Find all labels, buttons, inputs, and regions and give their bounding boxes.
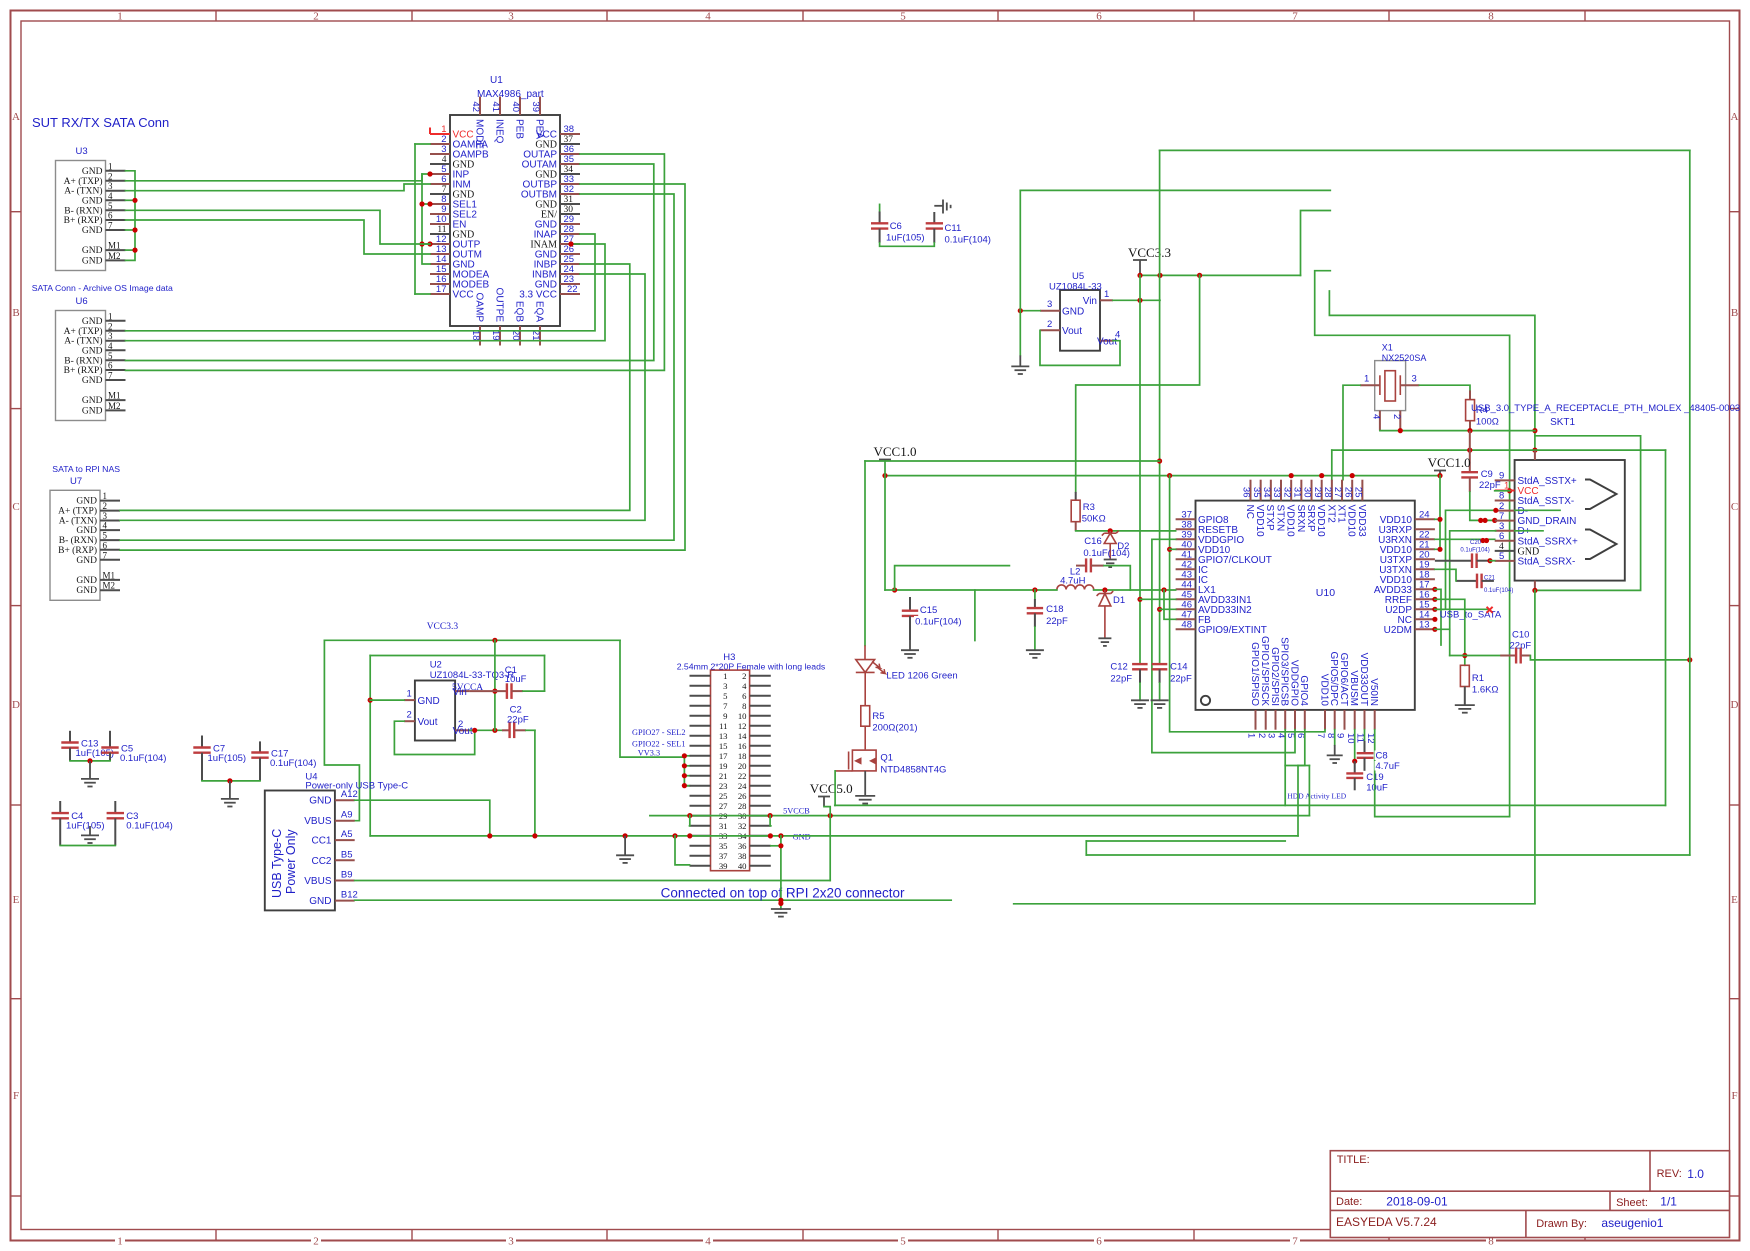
svg-text:7: 7: [108, 221, 113, 231]
svg-text:32: 32: [564, 184, 575, 195]
svg-text:1: 1: [108, 311, 113, 321]
wire y855 bottom horizontal: [1086, 854, 1690, 856]
svg-text:GPIO2/SPISI: GPIO2/SPISI: [1269, 647, 1280, 706]
wire C7/C17 ground link: [202, 780, 260, 782]
svg-text:4: 4: [1115, 330, 1120, 341]
wire GND rail y836: [370, 835, 1298, 837]
wire U4 B9 VBUS to VCC5.0 branch: [355, 880, 831, 882]
svg-text:24: 24: [738, 781, 747, 791]
U10 pin 7 VDD10: [1315, 674, 1329, 739]
SKT1 pin 7 GND_DRAIN: [1495, 511, 1577, 527]
svg-text:VDD33: VDD33: [1356, 505, 1367, 538]
wire U5 Vin to VCC3.3 net: [1113, 299, 1160, 301]
svg-text:C11: C11: [945, 223, 962, 234]
svg-text:21: 21: [719, 771, 728, 781]
svg-text:35: 35: [719, 841, 728, 851]
svg-text:14: 14: [738, 731, 747, 741]
U10 pin 15 U2DP: [1385, 599, 1435, 616]
svg-text:27: 27: [719, 801, 728, 811]
svg-text:25: 25: [719, 791, 728, 801]
svg-text:EQA: EQA: [533, 301, 544, 322]
connector H3 2x20 header: [711, 670, 750, 871]
svg-text:GND: GND: [309, 896, 331, 907]
H3 pins 23/24: [690, 781, 771, 791]
wire Vout up to VCC3.3: [494, 640, 496, 730]
U10 pin 6 GPIO4: [1295, 675, 1309, 738]
svg-text:A9: A9: [341, 810, 353, 821]
U1 pin 9 SEL2: [430, 204, 477, 221]
U10 pin 29 VDD10: [1312, 480, 1326, 537]
U1 pin 4 GND: [430, 155, 474, 171]
wire 5VCCB up to pin6 area: [1308, 766, 1310, 816]
svg-text:B+ (RXP): B+ (RXP): [64, 365, 103, 376]
U2 pin 2 Vout left: [404, 710, 438, 729]
svg-text:0.1uF(104): 0.1uF(104): [270, 758, 316, 769]
svg-text:40: 40: [738, 861, 747, 871]
svg-text:C12: C12: [1110, 662, 1127, 673]
wire VCC1.0 to pin24/21: [1435, 476, 1440, 550]
IC U5 UZ1084L-33: [1060, 290, 1100, 351]
U1 pin 36 OUTAP: [523, 144, 580, 161]
U1 pin 22 3.3 VCC: [519, 284, 580, 301]
U10 pin 44 LX1: [1176, 579, 1217, 596]
wire XT2 net vertical x1665: [1665, 450, 1667, 805]
svg-text:1: 1: [723, 671, 727, 681]
svg-text:9: 9: [723, 711, 727, 721]
svg-text:2: 2: [313, 1236, 319, 1248]
resistor R3 50K: [1071, 492, 1106, 531]
svg-text:VCC3.3: VCC3.3: [1128, 245, 1171, 260]
svg-text:D1: D1: [1113, 595, 1125, 606]
capacitor C11: [926, 212, 991, 246]
svg-text:GND: GND: [82, 196, 103, 206]
U4 pin B9 VBUS: [304, 870, 354, 888]
wire pin10 VBUSM to C19: [1354, 730, 1356, 762]
wire H3 29-31 tie: [689, 816, 691, 826]
wire VDDGPIO pin39 to pin5: [1152, 539, 1295, 752]
U4 pin B12 GND: [309, 890, 358, 908]
svg-text:VBUS: VBUS: [304, 876, 332, 887]
ground below H3 right: [771, 909, 791, 917]
svg-text:3: 3: [508, 11, 514, 23]
wire VCC3.3 left leg down to A9: [324, 640, 359, 820]
ground below C7/C17: [221, 799, 239, 807]
svg-text:13: 13: [1419, 619, 1430, 630]
wire U3RXN to StdA_SSRX+: [1435, 538, 1495, 540]
wire pin8 to ground: [1334, 730, 1336, 745]
svg-text:6: 6: [108, 211, 113, 221]
svg-text:22pF: 22pF: [1110, 674, 1132, 685]
U1 pin 24 INBM: [532, 264, 580, 281]
wire VCC1.0 rail1: [865, 460, 1160, 462]
wire XT2 vertical: [1331, 450, 1333, 480]
svg-text:2.54mm 2*20P Female with long: 2.54mm 2*20P Female with long leads: [677, 662, 826, 672]
svg-text:2: 2: [458, 719, 463, 730]
svg-text:MAX4986_part: MAX4986_part: [477, 89, 544, 100]
svg-text:4: 4: [103, 521, 108, 531]
U1 pin 15 MODEA: [430, 264, 490, 281]
svg-text:3: 3: [1412, 374, 1417, 385]
U10 pin 8 GPIO5/DPC: [1325, 652, 1339, 739]
wire C9 bottom to GND_DRAIN: [1470, 492, 1495, 520]
svg-text:STXP: STXP: [1264, 505, 1275, 531]
svg-text:M1: M1: [103, 570, 116, 580]
svg-text:40: 40: [510, 101, 521, 112]
wire AVDD33 stub: [1435, 589, 1441, 645]
svg-text:U6: U6: [76, 296, 88, 307]
wire H3 30-32 tie: [769, 816, 772, 826]
svg-text:1: 1: [1246, 733, 1257, 738]
capacitor C8 4.7uF: [1357, 730, 1401, 772]
svg-text:100Ω: 100Ω: [1476, 417, 1499, 428]
svg-text:1uF(105): 1uF(105): [66, 821, 105, 832]
svg-text:10: 10: [738, 711, 747, 721]
wire U1 INAP to U6.2: [126, 234, 596, 331]
wire U1 pin2-pin17 vertical: [414, 144, 416, 294]
wire pin4 to HDD LED line: [1284, 730, 1286, 806]
svg-text:B12: B12: [341, 890, 358, 901]
U1 pin 34 GND: [535, 165, 580, 181]
U10 pin 31 SRXN: [1292, 480, 1306, 533]
svg-text:39: 39: [719, 861, 728, 871]
svg-text:2: 2: [742, 671, 746, 681]
ground below C13/C5: [81, 779, 99, 787]
svg-text:9: 9: [1335, 733, 1346, 738]
U10 pin 4 SPIO3/SPICSB: [1275, 637, 1289, 738]
U10 pin 2 GPIO1/SPISCK: [1256, 636, 1270, 738]
svg-text:4: 4: [108, 191, 113, 201]
U10 pin 16 RREF: [1385, 589, 1435, 606]
svg-text:C14: C14: [1170, 662, 1187, 673]
wire U1 INAM to U6.3: [126, 244, 606, 341]
svg-text:U1: U1: [490, 75, 503, 86]
wire U4 B12 GND long: [355, 899, 952, 901]
U5 pin 3 GND: [1040, 299, 1084, 318]
U10 pin 17 AVDD33: [1374, 579, 1435, 596]
capacitor C3: [107, 801, 173, 846]
svg-text:A- (TXN): A- (TXN): [64, 336, 102, 347]
ground below C15: [901, 650, 919, 658]
ground below C18: [1026, 650, 1044, 658]
U10 pin 48 GPIO9/EXTINT: [1176, 619, 1267, 636]
svg-text:32: 32: [738, 821, 747, 831]
svg-text:Vout: Vout: [1062, 326, 1082, 337]
svg-text:1uF(105): 1uF(105): [886, 233, 925, 244]
svg-text:GND: GND: [793, 833, 811, 842]
capacitor C1 10uF: [470, 665, 545, 699]
svg-text:1: 1: [117, 11, 123, 23]
capacitor C12 22pF: [1110, 662, 1147, 701]
svg-text:2: 2: [1391, 414, 1402, 419]
U1 pin 35 OUTAM: [522, 154, 580, 171]
U10 pin 9 GPIO6/ACT: [1335, 653, 1349, 739]
wire open stub y210: [1301, 211, 1331, 276]
svg-text:6: 6: [1499, 531, 1504, 542]
svg-text:35: 35: [1251, 487, 1262, 498]
svg-text:35: 35: [564, 154, 575, 165]
svg-text:NTD4858NT4G: NTD4858NT4G: [880, 765, 946, 776]
U10 pin 42 IC: [1176, 559, 1208, 576]
ground below pin8: [1327, 755, 1343, 763]
svg-text:3: 3: [441, 144, 446, 155]
wire C6 bottom to C11 bottom: [880, 243, 935, 247]
svg-text:18: 18: [738, 751, 747, 761]
wire HDD LED gate line y805: [835, 804, 1666, 806]
svg-text:Vin: Vin: [1083, 296, 1097, 307]
svg-text:22pF: 22pF: [1046, 616, 1068, 627]
U10 pin 27 XT1: [1332, 480, 1346, 524]
svg-text:22pF: 22pF: [1479, 480, 1501, 491]
wire U4 A12 GND: [355, 800, 490, 836]
svg-text:F: F: [13, 1090, 19, 1102]
svg-text:38: 38: [738, 851, 747, 861]
U1 pin 32 OUTBM: [521, 184, 580, 201]
svg-text:17: 17: [436, 284, 447, 295]
svg-text:SATA Conn - Archive OS Image d: SATA Conn - Archive OS Image data: [32, 283, 173, 293]
diode D1: [1097, 590, 1114, 638]
U10 pin 24 VDD10: [1380, 509, 1435, 526]
H3 pins 15/16: [690, 741, 771, 751]
svg-text:M2: M2: [103, 581, 116, 591]
svg-text:2: 2: [313, 11, 319, 23]
ground stub below rail: [624, 836, 626, 855]
svg-text:C6: C6: [890, 221, 902, 232]
svg-text:GPIO4: GPIO4: [1298, 675, 1309, 706]
wire U1 OUTBM to U7.5: [120, 194, 674, 540]
wire top horizontal y150: [1160, 149, 1690, 151]
svg-text:VCC: VCC: [453, 290, 474, 301]
svg-text:A- (TXN): A- (TXN): [64, 186, 102, 197]
svg-text:U3: U3: [76, 146, 88, 157]
svg-text:Sheet:: Sheet:: [1616, 1197, 1648, 1209]
U10 pin 36 NC: [1241, 480, 1255, 519]
svg-text:C15: C15: [920, 605, 937, 616]
wire x885 corner to LX1 line: [885, 589, 895, 591]
resistor R1 1.6K: [1460, 665, 1498, 705]
H3 pins 29/30: [690, 811, 771, 821]
svg-text:4: 4: [705, 11, 711, 23]
svg-text:GND: GND: [1062, 307, 1084, 318]
capacitor C5: [101, 731, 166, 764]
U1 pin 10 EN: [430, 214, 466, 231]
svg-text:GPIO1/SPISO: GPIO1/SPISO: [1249, 642, 1260, 706]
U1 pin 29 GND: [535, 214, 580, 231]
svg-text:10uF: 10uF: [1366, 783, 1388, 794]
capacitor C21 0.1uF: [1456, 574, 1513, 594]
wire X1 pin3 to R4 top: [1419, 385, 1470, 390]
svg-text:B5: B5: [341, 849, 353, 860]
U2 pin 1 GND: [404, 689, 440, 708]
U1 pin 6 INM: [430, 174, 471, 191]
wire D- stub into box: [1515, 509, 1560, 511]
svg-text:VDD10: VDD10: [1318, 674, 1329, 707]
U1 pin 3 OAMPB: [430, 144, 489, 161]
resistor R5 200ohm: [861, 690, 918, 749]
svg-text:0.1uF(104): 0.1uF(104): [126, 821, 172, 832]
U10 pin 18 VDD10: [1380, 569, 1435, 586]
svg-text:USB Type-C: USB Type-C: [270, 829, 284, 898]
U1 pin1 red bend: [429, 128, 431, 135]
wire D+ to U2DM: [1450, 531, 1496, 656]
svg-text:GPIO9/EXTINT: GPIO9/EXTINT: [1198, 625, 1267, 636]
wire open stub y190: [1020, 189, 1330, 191]
U1 pin 39 PEA: [530, 97, 544, 140]
U10 pin 32 VDD10: [1281, 480, 1295, 537]
svg-text:6: 6: [1096, 11, 1102, 23]
wire C10 right to ground net: [1530, 656, 1689, 660]
svg-text:7: 7: [103, 550, 108, 560]
svg-text:VBUS: VBUS: [304, 816, 332, 827]
ground below Q1: [855, 796, 875, 804]
wire U1 OUTAM to U6.5: [126, 164, 654, 361]
svg-text:GND: GND: [76, 497, 97, 507]
U10 pin 10 VBUSM: [1345, 670, 1359, 743]
svg-text:LED 1206 Green: LED 1206 Green: [886, 671, 957, 682]
svg-text:SRXP: SRXP: [1305, 505, 1316, 533]
svg-text:VCC1.0: VCC1.0: [1428, 455, 1471, 470]
wire C4/C3 ground link: [60, 845, 115, 847]
U10 pin 26 VDD10: [1342, 480, 1356, 537]
LED 1206 Green: [856, 645, 885, 690]
svg-text:GND: GND: [82, 406, 103, 416]
H3 pins 21/22: [690, 771, 771, 781]
wire vertical x1160 long: [1159, 150, 1161, 664]
svg-text:Q1: Q1: [880, 753, 893, 764]
wire Q1 gate down: [834, 771, 836, 806]
U1 pin 11 GND: [430, 225, 474, 241]
wire C2 right down to gnd rail: [534, 730, 536, 836]
svg-text:GPIO27 - SEL2: GPIO27 - SEL2: [632, 728, 685, 737]
capacitor C4: [52, 801, 105, 846]
wire gnd link right segment: [1014, 903, 1535, 905]
diode D2 zener: [1102, 531, 1119, 560]
U10 pin 33 STXN: [1271, 480, 1285, 531]
svg-text:B: B: [1731, 307, 1738, 319]
svg-text:VDD10: VDD10: [1315, 505, 1326, 538]
U1 pin 20 EQB: [510, 301, 524, 346]
U5 pin 1 Vin: [1083, 289, 1113, 307]
svg-text:SRXN: SRXN: [1295, 505, 1306, 533]
svg-text:2: 2: [407, 710, 412, 721]
U1 pin 7 GND: [430, 185, 474, 201]
wire U2 GND left leg: [369, 656, 371, 836]
svg-text:A: A: [1731, 111, 1739, 123]
svg-text:2: 2: [108, 171, 113, 181]
U10 pin 45 AVDD33IN1: [1176, 589, 1253, 606]
wire VCC3.3 rail: [1140, 274, 1301, 276]
ground right of C11: [934, 200, 950, 214]
U1 pin 42 MODE: [470, 97, 484, 150]
svg-text:X1: X1: [1382, 343, 1393, 353]
U1 pin 5 INP: [430, 164, 470, 181]
svg-text:5: 5: [1499, 551, 1504, 562]
U1 pin 12 OUTP: [430, 234, 481, 251]
U1 pin 16 MODEB: [430, 274, 490, 291]
svg-text:22: 22: [738, 771, 747, 781]
capacitor C15 0.1uF: [902, 597, 962, 640]
U1 pin 25 INBP: [534, 254, 580, 271]
wire RREF to R1: [1435, 599, 1465, 665]
wire VCC1.0 rail2 VDD10: [885, 475, 1440, 477]
svg-text:B+ (RXP): B+ (RXP): [58, 545, 97, 556]
U4 pin A12 GND: [309, 789, 358, 807]
svg-text:B- (RXN): B- (RXN): [59, 535, 97, 546]
H3 pins 3/4: [690, 681, 771, 691]
wire U1 OUTAP to U6.6: [126, 154, 665, 370]
H3 pins 39/40: [690, 861, 771, 871]
svg-text:3: 3: [1266, 733, 1277, 738]
transistor Q1 NTD4858NT4G: [835, 749, 876, 771]
wire y841 horizontal: [1086, 840, 1285, 842]
svg-text:U5: U5: [1072, 271, 1084, 282]
svg-text:OAMP: OAMP: [473, 293, 484, 323]
svg-text:F: F: [1731, 1090, 1737, 1102]
svg-text:SPIO3/SPICSB: SPIO3/SPICSB: [1279, 637, 1290, 706]
wire U3.5 B- to U1 OUTP: [126, 210, 431, 244]
X1 pin 2: [1391, 411, 1402, 431]
svg-text:GND: GND: [76, 556, 97, 566]
wire R3 to RESETB: [1076, 530, 1176, 532]
svg-text:E: E: [13, 894, 20, 906]
svg-text:GPIO1/SPISCK: GPIO1/SPISCK: [1259, 636, 1270, 706]
wire X1 ground row y430: [1380, 430, 1535, 432]
svg-text:GPIO22 - SEL1: GPIO22 - SEL1: [632, 740, 685, 749]
capacitor C10 22pF: [1450, 630, 1532, 664]
svg-text:PEA: PEA: [533, 119, 544, 139]
U1 pin 28 INAP: [534, 224, 580, 241]
svg-text:NX2520SA: NX2520SA: [1382, 353, 1427, 363]
U1 pin 38 VCC: [536, 124, 580, 141]
svg-text:UZ1084L-33-TQ3-R: UZ1084L-33-TQ3-R: [430, 670, 515, 681]
svg-text:VDD10: VDD10: [1346, 505, 1357, 538]
U10 pin 39 VDDGPIO: [1176, 529, 1245, 546]
svg-text:OUTPE: OUTPE: [493, 288, 504, 323]
svg-text:VDD33OUT: VDD33OUT: [1358, 653, 1369, 706]
U1 pin 1 VCC: [430, 124, 474, 141]
svg-text:1: 1: [108, 161, 113, 171]
svg-text:VDD10: VDD10: [1285, 505, 1296, 538]
H3 pins 9/10: [690, 711, 771, 721]
wire U2 GND rail: [370, 655, 544, 657]
U10 pin 38 RESETB: [1176, 519, 1239, 536]
U10 pin 34 STXP: [1261, 480, 1275, 531]
wire VCC pin1 to VBUS vertical: [1495, 490, 1510, 492]
wire vertical x865 to LED: [864, 461, 866, 645]
U1 pin 37 GND: [535, 135, 580, 151]
wire U3TXN to C21: [1435, 569, 1456, 581]
H3 pins 7/8: [690, 701, 771, 711]
svg-text:1: 1: [1364, 374, 1369, 385]
svg-text:3.3 VCC: 3.3 VCC: [519, 290, 557, 301]
svg-text:8: 8: [742, 701, 747, 711]
svg-text:VCC5.0: VCC5.0: [810, 781, 853, 796]
U10 pin 19 U3TXN: [1379, 559, 1435, 576]
svg-text:GND: GND: [76, 576, 97, 586]
H3 pins 13/14: [690, 731, 771, 741]
svg-text:Connected on top of RPI 2x20 c: Connected on top of RPI 2x20 connector: [661, 886, 905, 901]
net VCC3.3 symbol (top right): [1128, 245, 1171, 275]
svg-text:PEB: PEB: [513, 119, 524, 139]
U1 pin 2 OAMPA: [430, 134, 488, 151]
SKT1 top shield pin: [1534, 450, 1536, 460]
wire y853 vertical x1086: [1085, 841, 1087, 855]
wire H3 3V3 pins bus: [684, 757, 689, 786]
wire X1 pin1 to U10 XT1: [1343, 385, 1360, 480]
H3 pins 25/26: [690, 791, 771, 801]
svg-text:3: 3: [103, 511, 108, 521]
U2 pin Vin: [453, 687, 470, 698]
wire U5 GND to ground: [1020, 310, 1040, 312]
